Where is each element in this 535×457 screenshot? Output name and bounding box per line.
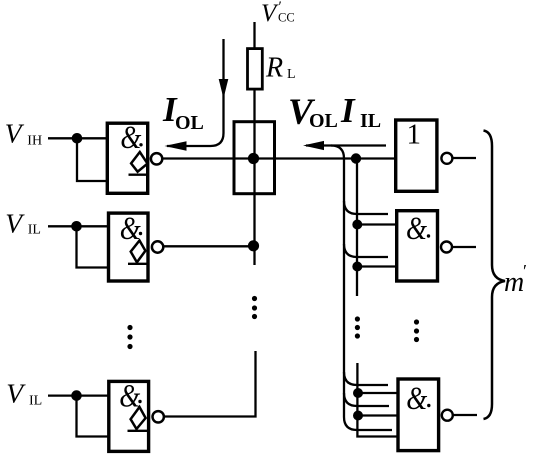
U1 output bubble [441, 153, 452, 164]
label m' [504, 261, 527, 298]
label V_IH [5, 118, 42, 149]
label IIL [340, 91, 381, 132]
svg-text:IL: IL [360, 110, 381, 132]
current arrow IIL [303, 141, 386, 150]
wire main output net [164, 157, 396, 159]
bus A branch curve to load gate U3 stub 3 [344, 417, 392, 430]
brace m' [484, 131, 506, 420]
wire G1 input tie [77, 138, 107, 181]
U3 output wire [453, 414, 477, 416]
node box (wired-AND output node) [234, 122, 275, 194]
svg-text:I: I [340, 91, 356, 130]
svg-text:IL: IL [28, 223, 41, 238]
bus A branch curve to load gate U3 stub 2 [344, 393, 389, 406]
svg-text:OL: OL [309, 110, 338, 132]
wire V_IL input G3 [48, 394, 109, 396]
svg-text:m: m [504, 267, 524, 298]
label V_IL (G3) [6, 378, 42, 409]
junction dot U3 input 2 [353, 411, 363, 421]
G3 output bubble [153, 411, 164, 422]
wire to U3 input 1 [358, 392, 399, 394]
wire to U3 input 2 [358, 414, 399, 416]
junction dot U2 input 1 [352, 220, 362, 230]
junction dot G1 input [72, 133, 83, 144]
wire G3 input tie [77, 396, 109, 437]
label VOL [288, 92, 338, 133]
NAND load gate U3 [398, 379, 439, 451]
svg-text:V: V [5, 118, 25, 149]
svg-text:V: V [5, 208, 25, 239]
wire to U2 input 1 [357, 223, 396, 225]
svg-text:R: R [265, 53, 283, 84]
svg-text:1: 1 [407, 119, 422, 151]
G2 output bubble [152, 241, 163, 252]
wire VCC to RL [253, 22, 255, 49]
bus A: wire from IIL line down the load column [331, 146, 344, 418]
junction dot center node [248, 153, 259, 164]
power V'CC label [261, 0, 295, 27]
bus A branch curve to load gate U2 stub 2 [344, 244, 388, 257]
svg-text:&: & [406, 211, 427, 247]
ellipsis right gate column [414, 319, 419, 342]
junction dot right node [351, 153, 361, 163]
junction dot lower node [248, 240, 259, 251]
wire V_IH input [48, 137, 107, 139]
svg-text:OL: OL [175, 112, 204, 134]
wire G2 output to node [164, 245, 254, 247]
G3 open-collector diamond [131, 407, 146, 429]
G2 open-collector diamond [131, 241, 146, 263]
svg-text:V: V [261, 0, 279, 27]
bus A branch curve to load gate U3 stub 1 [344, 372, 388, 385]
bus B lower segment into U3 bottom input [357, 363, 398, 437]
G1 open-collector diamond [131, 152, 147, 172]
U1 output wire [453, 157, 476, 159]
U2 output wire [453, 246, 476, 248]
resistor RL [248, 49, 263, 90]
U2 output bubble [441, 242, 452, 253]
svg-text:′: ′ [523, 261, 527, 281]
ellipsis left gate column [127, 325, 132, 349]
svg-text:&: & [120, 120, 141, 156]
wire to U2 input 2 [357, 265, 396, 267]
wire V_IL input G2 [48, 225, 108, 227]
svg-text:L: L [287, 67, 296, 82]
label IOL [162, 90, 204, 134]
G1 output bubble [151, 153, 162, 164]
svg-text:&: & [406, 381, 427, 417]
junction dot G3 input [71, 390, 82, 401]
junction dot G2 input [71, 221, 82, 232]
open-collector AND gate G3 [109, 379, 149, 452]
wire G3 output up to node [165, 351, 256, 417]
label RL [265, 53, 296, 84]
open-collector AND gate G2 [109, 211, 149, 281]
svg-text:CC: CC [278, 11, 295, 25]
svg-text:V: V [6, 378, 26, 409]
current arrow IOL [165, 39, 229, 151]
label V_IL (G2) [5, 208, 41, 239]
svg-text:IH: IH [27, 134, 42, 149]
ellipsis center column [252, 296, 257, 319]
junction dot U2 input 2 [352, 262, 362, 272]
wire RL through node box down to lower junction [253, 89, 255, 265]
bus B: wire from right node down to load gate inputs [356, 159, 358, 297]
bus A branch curve to load gate U2 stub 1 [344, 201, 388, 214]
U3 output bubble [442, 410, 453, 421]
NAND load gate U2 [397, 211, 438, 281]
open-collector AND gate G1 [107, 120, 147, 193]
ellipsis bus B [355, 316, 360, 338]
svg-text:IL: IL [29, 394, 42, 409]
wire G2 input tie [77, 226, 109, 267]
buffer gate U1 [396, 119, 437, 192]
junction dot U3 input 1 [353, 388, 363, 398]
